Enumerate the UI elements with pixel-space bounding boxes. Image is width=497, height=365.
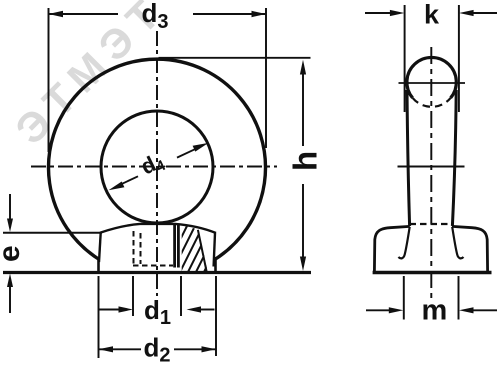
svg-text:e: e — [0, 245, 26, 262]
svg-text:k: k — [424, 0, 440, 30]
svg-text:h: h — [287, 151, 324, 171]
svg-text:m: m — [422, 295, 448, 327]
